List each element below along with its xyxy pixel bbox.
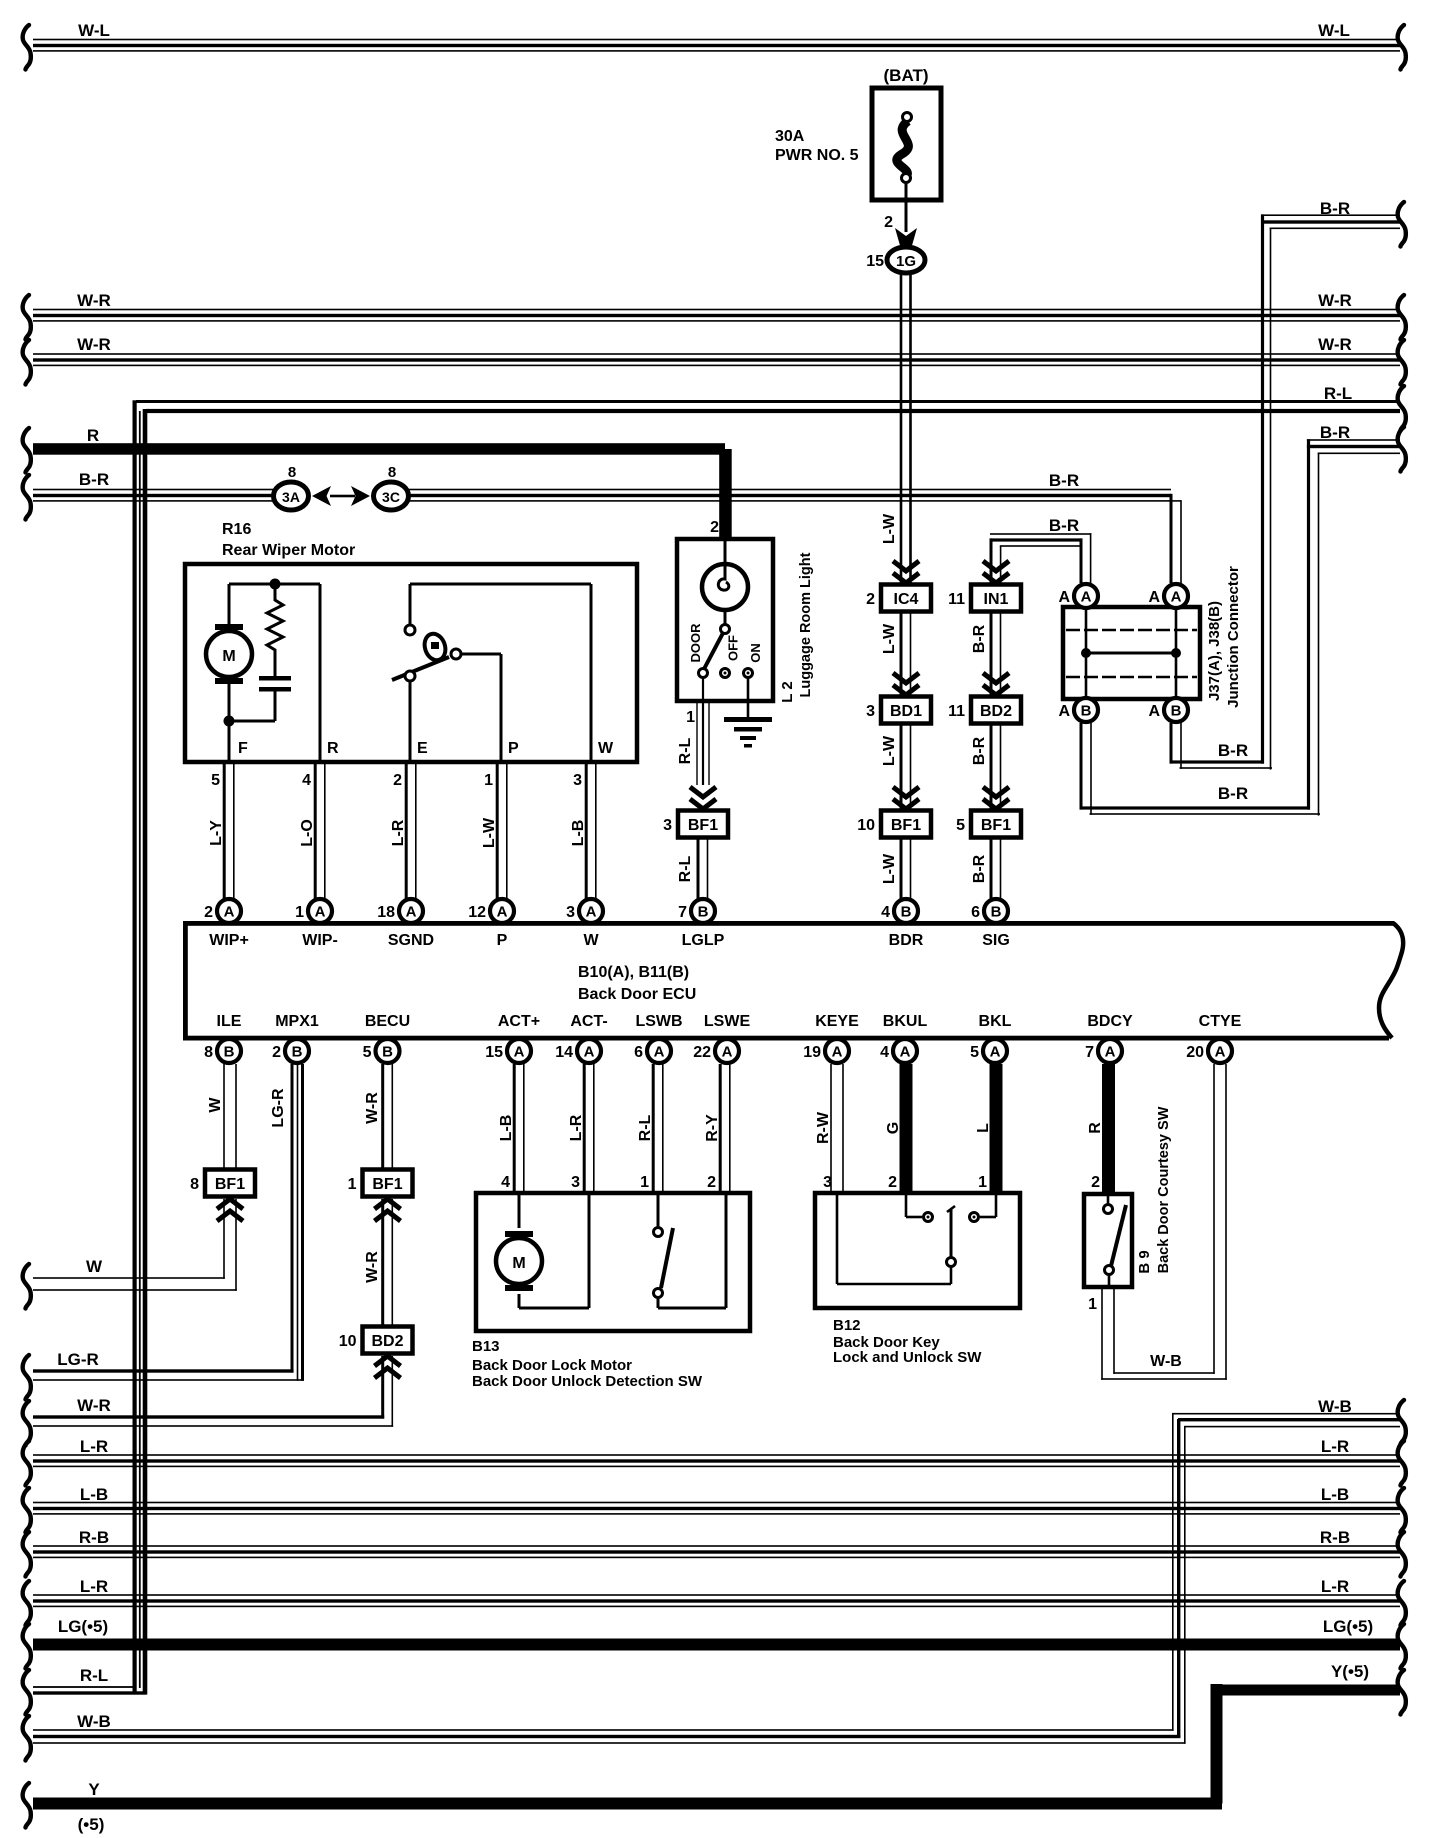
svg-text:LG-R: LG-R — [270, 1088, 287, 1128]
svg-text:W: W — [583, 932, 599, 949]
svg-text:3C: 3C — [382, 489, 400, 505]
connector BF1 (BDR chain) — [881, 811, 931, 838]
svg-text:BF1: BF1 — [891, 817, 921, 834]
B13 unlock detection switch — [657, 1195, 660, 1227]
svg-text:L-Y: L-Y — [208, 820, 225, 846]
svg-text:BECU: BECU — [365, 1013, 410, 1030]
B-R 4th right squiggle — [1398, 427, 1406, 472]
svg-text:W-L: W-L — [78, 21, 110, 40]
svg-text:B-R: B-R — [1218, 784, 1248, 803]
ECU top pin BDR — [894, 899, 918, 923]
wire R-L BF1 to ECU pin LGLP — [697, 838, 700, 900]
R-B left squiggle — [23, 1532, 31, 1577]
R left squiggle — [23, 428, 31, 473]
arrow into BF1 (SIG) — [983, 787, 1009, 809]
wire W-B right bus — [1172, 1413, 1400, 1415]
svg-text:A: A — [514, 1044, 525, 1061]
svg-text:M: M — [222, 648, 235, 665]
svg-text:LG-R: LG-R — [57, 1350, 99, 1369]
connector IC4 — [881, 585, 931, 612]
wire L-W BD1 to BF1 — [900, 724, 903, 810]
svg-text:ON: ON — [748, 643, 763, 663]
wire LG(.5) heavy bus — [33, 1639, 1400, 1651]
svg-text:BF1: BF1 — [215, 1176, 245, 1193]
Y left squiggle — [23, 1783, 31, 1828]
svg-text:2: 2 — [1091, 1174, 1100, 1191]
wire W from BF1 down to W bus — [223, 1199, 225, 1279]
W-R2 left squiggle — [23, 340, 31, 385]
ECU top pin WIP+ — [217, 899, 241, 923]
svg-text:ACT+: ACT+ — [498, 1013, 540, 1030]
svg-text:R-L: R-L — [637, 1114, 654, 1141]
svg-text:A: A — [1058, 703, 1070, 720]
resistor (wiper parking) — [267, 584, 283, 660]
arrow up into BF1 (BECU) — [375, 1199, 401, 1221]
wire W bus to left edge — [33, 1277, 225, 1279]
svg-text:E: E — [417, 740, 428, 757]
wire link between 3A and 3C with arrows — [330, 495, 355, 498]
svg-text:3: 3 — [571, 1174, 580, 1191]
J37 pin A left — [1074, 584, 1098, 608]
svg-text:G: G — [885, 1122, 902, 1134]
svg-text:LSWE: LSWE — [704, 1013, 751, 1030]
svg-text:A: A — [832, 1044, 843, 1061]
svg-text:6: 6 — [971, 904, 980, 921]
ECU top pin SGND — [399, 899, 423, 923]
svg-text:A: A — [497, 904, 508, 921]
B12 lock contact — [905, 1195, 908, 1217]
svg-text:B: B — [382, 1044, 393, 1061]
wiper park switch lever and cam — [392, 657, 449, 680]
ON contact — [744, 669, 753, 678]
svg-text:J37(A), J38(B): J37(A), J38(B) — [1206, 601, 1223, 701]
svg-text:1: 1 — [640, 1174, 649, 1191]
bulb symbol — [724, 541, 727, 566]
svg-text:3: 3 — [663, 817, 672, 834]
arrow into BD1 — [893, 673, 919, 695]
wire R-L bottom stub — [33, 1686, 136, 1688]
svg-text:A: A — [1215, 1044, 1226, 1061]
wire L-B bus — [33, 1502, 1400, 1504]
svg-text:R16: R16 — [222, 521, 251, 538]
fuse element symbol — [897, 121, 909, 177]
svg-text:(•5): (•5) — [78, 1815, 105, 1834]
svg-text:8: 8 — [204, 1044, 213, 1061]
connector BD1 — [881, 697, 931, 724]
svg-text:B-R: B-R — [79, 470, 109, 489]
svg-text:BDCY: BDCY — [1087, 1013, 1133, 1030]
wire L-W from 1G down to IC4 — [900, 273, 903, 585]
arrow into BD2 — [983, 673, 1009, 695]
wire R riser to luggage room light — [719, 449, 732, 539]
wire B-R feed to IN1 and J37 pin A left — [990, 538, 1083, 541]
svg-text:10: 10 — [857, 817, 875, 834]
svg-text:B: B — [292, 1044, 303, 1061]
svg-text:L-W: L-W — [881, 853, 898, 884]
wire B-R segment J37 pin B right to riser — [1170, 760, 1265, 763]
svg-text:L 2: L 2 — [779, 681, 796, 702]
J37 internal link with junction dots — [1086, 652, 1176, 655]
svg-text:L-W: L-W — [881, 513, 898, 544]
svg-text:8: 8 — [190, 1176, 199, 1193]
svg-text:18: 18 — [377, 904, 395, 921]
svg-text:11: 11 — [948, 703, 965, 720]
svg-text:2: 2 — [866, 591, 875, 608]
wiper park switch feed — [410, 583, 591, 586]
OFF contact — [721, 669, 730, 678]
W-R low left squiggle — [23, 1401, 31, 1446]
connector 3C — [374, 482, 409, 510]
svg-text:W-R: W-R — [1318, 335, 1352, 354]
component box L2 luggage room light — [677, 539, 773, 701]
wire B-R corner down to J37 pin A right — [1170, 494, 1173, 583]
svg-text:CTYE: CTYE — [1199, 1013, 1242, 1030]
connector BF1 (ILE chain) — [205, 1170, 255, 1197]
wire L-R from R16 terminal to ECU — [405, 763, 408, 899]
wire fuse to 1G — [905, 182, 908, 232]
W-R1 left squiggle — [23, 295, 31, 340]
svg-text:4: 4 — [302, 772, 311, 789]
wire park contact to P terminal — [461, 653, 501, 656]
svg-text:R-B: R-B — [1320, 1528, 1350, 1547]
svg-text:W-R: W-R — [1318, 291, 1352, 310]
svg-text:2: 2 — [710, 519, 719, 536]
wire L-R bus — [33, 1454, 1400, 1456]
svg-text:B-R: B-R — [1049, 516, 1079, 535]
svg-text:A: A — [1058, 589, 1070, 606]
wire bulb to switch common — [724, 610, 727, 624]
wire B-R right bus (4th) — [1307, 445, 1400, 448]
svg-text:3: 3 — [823, 1174, 832, 1191]
svg-text:B12: B12 — [833, 1317, 861, 1334]
svg-text:B: B — [1081, 703, 1092, 720]
wire W-B riser (mid) — [1172, 1413, 1174, 1731]
svg-text:LSWB: LSWB — [635, 1013, 682, 1030]
wire capacitor to motor branch junction — [229, 720, 275, 723]
connector BD2 (upper) — [971, 697, 1021, 724]
svg-text:5: 5 — [211, 772, 220, 789]
svg-text:B-R: B-R — [1320, 423, 1350, 442]
svg-text:L-B: L-B — [570, 820, 587, 847]
wire B-R BD2 to BF1 — [990, 724, 993, 810]
svg-text:A: A — [1105, 1044, 1116, 1061]
wire L-R from ECU to B13 pin 3 — [583, 1064, 586, 1193]
svg-text:KEYE: KEYE — [815, 1013, 859, 1030]
svg-text:W-R: W-R — [77, 335, 111, 354]
svg-text:7: 7 — [678, 904, 687, 921]
svg-text:Back Door Courtesy SW: Back Door Courtesy SW — [1156, 1106, 1172, 1273]
wire LG-R from MPX1 pin down — [291, 1064, 294, 1373]
connector 1G oval — [887, 247, 925, 273]
svg-text:14: 14 — [555, 1044, 573, 1061]
svg-text:B-R: B-R — [1218, 741, 1248, 760]
wire LG-R bus to left edge — [33, 1369, 294, 1372]
L-B left squiggle — [23, 1488, 31, 1533]
svg-text:R: R — [87, 426, 99, 445]
svg-text:IC4: IC4 — [894, 591, 919, 608]
wire Y riser — [1211, 1684, 1223, 1804]
W-R1 right squiggle — [1398, 295, 1406, 340]
svg-text:R: R — [327, 740, 339, 757]
L-R left squiggle — [23, 1441, 31, 1486]
svg-text:R-Y: R-Y — [704, 1114, 721, 1142]
svg-text:1: 1 — [1088, 1296, 1097, 1313]
wire R-B bus — [33, 1545, 1400, 1547]
B-R left squiggle — [23, 475, 31, 520]
svg-text:A: A — [406, 904, 417, 921]
svg-text:WIP-: WIP- — [302, 932, 338, 949]
svg-text:12: 12 — [468, 904, 486, 921]
ECU top pin WIP- — [308, 899, 332, 923]
W-B right squiggle — [1398, 1400, 1406, 1445]
svg-text:LGLP: LGLP — [682, 932, 725, 949]
W left squiggle — [23, 1264, 31, 1309]
connector BF1 (LGLP chain) — [678, 811, 728, 838]
J37 pin B right — [1164, 698, 1188, 722]
wire W-R bus to left edge — [33, 1415, 384, 1418]
svg-text:11: 11 — [948, 591, 965, 608]
wire L-R bus 2 — [33, 1594, 1400, 1596]
svg-text:30A: 30A — [775, 128, 805, 145]
wire L-O from R16 terminal to ECU — [314, 763, 317, 899]
svg-text:B-R: B-R — [971, 624, 988, 653]
wire Y heavy bottom bus — [33, 1798, 1222, 1810]
svg-text:3: 3 — [866, 703, 875, 720]
wire R-L from L2 pin1 down — [696, 703, 697, 785]
svg-text:L-W: L-W — [881, 623, 898, 654]
svg-text:Y: Y — [88, 1780, 100, 1799]
svg-text:4: 4 — [880, 1044, 889, 1061]
wire E terminal — [409, 681, 412, 763]
wire L-Y from R16 terminal to ECU — [223, 763, 226, 899]
component box B10/B11 Back Door ECU — [183, 921, 188, 1041]
svg-text:SIG: SIG — [982, 932, 1010, 949]
svg-text:R-L: R-L — [80, 1666, 108, 1685]
svg-text:R-W: R-W — [815, 1111, 832, 1144]
svg-text:ACT-: ACT- — [570, 1013, 607, 1030]
svg-text:7: 7 — [1085, 1044, 1094, 1061]
Y right squiggle — [1398, 1670, 1406, 1715]
svg-text:W-B: W-B — [1150, 1353, 1182, 1370]
svg-text:5: 5 — [363, 1044, 372, 1061]
wire B-R long bus (right section) — [406, 489, 1171, 491]
svg-text:BD2: BD2 — [371, 1333, 403, 1350]
wire R-L vertical riser (left) — [133, 400, 137, 1692]
svg-text:B13: B13 — [472, 1338, 500, 1355]
J37 pin A right — [1164, 584, 1188, 608]
svg-text:8: 8 — [288, 464, 296, 481]
component box B13 back door lock motor — [476, 1193, 750, 1331]
svg-text:1: 1 — [978, 1174, 987, 1191]
wire W-R bus 2 — [33, 353, 1400, 355]
svg-text:W-R: W-R — [77, 291, 111, 310]
svg-text:B: B — [991, 904, 1002, 921]
wire L-W BF1 to ECU pin BDR — [900, 838, 903, 900]
wire L-B from ECU to B13 pin 4 — [513, 1064, 516, 1193]
ECU top pin P — [490, 899, 514, 923]
wire W-L bus — [33, 39, 1400, 41]
svg-text:2: 2 — [393, 772, 402, 789]
ECU top pin W — [579, 899, 603, 923]
svg-text:A: A — [654, 1044, 665, 1061]
L-R2 right squiggle — [1398, 1581, 1406, 1626]
svg-text:M: M — [512, 1255, 525, 1272]
wire W-B from B9 pin1 down — [1101, 1287, 1103, 1380]
motor M symbol in B13 — [518, 1195, 521, 1228]
L-B right squiggle — [1398, 1488, 1406, 1533]
svg-text:(BAT): (BAT) — [884, 66, 929, 85]
B12 unlock contact — [995, 1195, 998, 1217]
svg-text:10: 10 — [339, 1333, 357, 1350]
wire R-W from KEYE to B12 pin 3 — [830, 1064, 832, 1193]
svg-text:L-B: L-B — [498, 1115, 515, 1142]
svg-text:L-B: L-B — [80, 1485, 108, 1504]
svg-text:B-R: B-R — [1320, 199, 1350, 218]
svg-text:L-W: L-W — [481, 817, 498, 848]
svg-text:B-R: B-R — [971, 736, 988, 765]
arrow into IC4 — [893, 561, 919, 583]
svg-text:OFF: OFF — [726, 635, 741, 661]
svg-text:A: A — [722, 1044, 733, 1061]
svg-text:W: W — [86, 1257, 103, 1276]
svg-text:BF1: BF1 — [372, 1176, 402, 1193]
svg-text:BKUL: BKUL — [883, 1013, 928, 1030]
wire L-B from R16 terminal to ECU — [585, 763, 588, 899]
svg-text:R-B: R-B — [79, 1528, 109, 1547]
svg-text:L-R: L-R — [390, 819, 407, 846]
L2 switch lever to DOOR position — [704, 633, 723, 669]
svg-text:A: A — [1171, 589, 1182, 606]
svg-text:5: 5 — [956, 817, 965, 834]
svg-text:L: L — [975, 1123, 992, 1133]
svg-text:MPX1: MPX1 — [275, 1013, 319, 1030]
wire L from BKL to B12 pin 1 — [990, 1064, 1003, 1193]
svg-text:8: 8 — [388, 464, 396, 481]
svg-text:LG(•5): LG(•5) — [58, 1617, 108, 1636]
svg-text:WIP+: WIP+ — [209, 932, 249, 949]
LG right squiggle — [1398, 1624, 1406, 1669]
svg-text:BF1: BF1 — [688, 817, 718, 834]
capacitor symbol — [259, 676, 291, 681]
wire motor top to R terminal — [229, 583, 320, 586]
R-L right squiggle — [1398, 386, 1406, 431]
wire B-R top right bus — [1261, 214, 1400, 216]
J37 pin B left — [1074, 698, 1098, 722]
svg-text:B: B — [1171, 703, 1182, 720]
svg-text:3A: 3A — [282, 489, 300, 505]
svg-text:A: A — [584, 1044, 595, 1061]
svg-text:15: 15 — [485, 1044, 503, 1061]
svg-text:15: 15 — [866, 253, 884, 270]
svg-text:BD2: BD2 — [980, 703, 1012, 720]
component box R16 rear wiper motor — [185, 564, 637, 762]
svg-text:W: W — [207, 1097, 224, 1113]
svg-text:L-R: L-R — [80, 1577, 108, 1596]
svg-text:L-R: L-R — [1321, 1437, 1349, 1456]
svg-text:B: B — [901, 904, 912, 921]
svg-text:R-L: R-L — [677, 855, 694, 882]
W-B left squiggle — [23, 1716, 31, 1761]
B9 switch — [1107, 1196, 1110, 1204]
svg-text:2: 2 — [884, 214, 893, 231]
svg-text:L-B: L-B — [1321, 1485, 1349, 1504]
wire B-R IN1 to BD2 — [990, 611, 993, 697]
wire W-R bus 1 — [33, 309, 1400, 311]
svg-text:A: A — [900, 1044, 911, 1061]
svg-text:1: 1 — [348, 1176, 357, 1193]
svg-text:L-O: L-O — [299, 819, 316, 847]
wire R-Y from ECU to B13 pin 2 — [719, 1064, 722, 1193]
svg-text:A: A — [1148, 703, 1160, 720]
wire W-B U link B9 to CTYE — [1101, 1378, 1227, 1380]
svg-text:L-R: L-R — [1321, 1577, 1349, 1596]
svg-text:W-R: W-R — [364, 1251, 381, 1283]
B-R top right squiggle — [1398, 202, 1406, 247]
svg-text:ILE: ILE — [217, 1013, 242, 1030]
svg-text:Y(•5): Y(•5) — [1331, 1662, 1369, 1681]
wire W-B from CTYE pin down — [1213, 1064, 1215, 1374]
svg-text:6: 6 — [634, 1044, 643, 1061]
arrow into 1G — [895, 228, 917, 249]
svg-text:A: A — [315, 904, 326, 921]
svg-text:A: A — [1148, 589, 1160, 606]
component box B9 back door courtesy SW — [1084, 1194, 1132, 1287]
svg-text:P: P — [508, 740, 519, 757]
svg-text:19: 19 — [803, 1044, 821, 1061]
ECU wavy right edge — [1379, 923, 1403, 1038]
arrow up into BF1 (ILE) — [217, 1199, 243, 1221]
svg-text:SGND: SGND — [388, 932, 434, 949]
svg-text:2: 2 — [707, 1174, 716, 1191]
svg-text:W-B: W-B — [77, 1712, 111, 1731]
wire motor to pin 3 — [518, 1294, 521, 1308]
svg-text:F: F — [238, 740, 248, 757]
fuse 30A PWR NO.5 (BAT) — [872, 88, 941, 200]
connector BD2 (lower) — [363, 1327, 413, 1354]
svg-text:2: 2 — [888, 1174, 897, 1191]
svg-text:L-R: L-R — [568, 1114, 585, 1141]
svg-text:B-R: B-R — [971, 854, 988, 883]
svg-text:W-R: W-R — [77, 1396, 111, 1415]
svg-text:W-B: W-B — [1318, 1397, 1352, 1416]
svg-text:Luggage Room Light: Luggage Room Light — [798, 552, 814, 697]
wire W-R BF1 to BD2 — [381, 1199, 384, 1327]
svg-text:B-R: B-R — [1049, 471, 1079, 490]
svg-text:1: 1 — [295, 904, 304, 921]
wire DOOR contact to pin 1 — [702, 677, 704, 701]
svg-text:A: A — [990, 1044, 1001, 1061]
svg-text:Back Door Lock Motor: Back Door Lock Motor — [472, 1357, 632, 1374]
connector 3A — [274, 482, 309, 510]
LG left squiggle — [23, 1624, 31, 1669]
arrow into BF1 (LGLP) — [690, 787, 716, 809]
svg-text:Back Door Unlock Detection SW: Back Door Unlock Detection SW — [472, 1373, 703, 1390]
wire R from BDCY to B9 pin 2 — [1102, 1064, 1115, 1194]
wire G from BKUL to B12 pin 2 — [900, 1064, 913, 1193]
W-L left continuation squiggle — [23, 25, 31, 70]
wire R-L from ECU to B13 pin 1 — [652, 1064, 655, 1193]
wire W-R BD2 down to W-R bus — [381, 1356, 384, 1419]
wire ON contact to ground — [747, 677, 750, 718]
wire Y(.5) right bus — [1211, 1685, 1400, 1696]
svg-text:1: 1 — [686, 709, 695, 726]
svg-text:R-L: R-L — [677, 737, 694, 764]
ground symbol — [724, 717, 772, 722]
arrow into IN1 — [983, 561, 1009, 583]
svg-text:BF1: BF1 — [981, 817, 1011, 834]
svg-text:BD1: BD1 — [890, 703, 922, 720]
W-R2 right squiggle — [1398, 340, 1406, 385]
